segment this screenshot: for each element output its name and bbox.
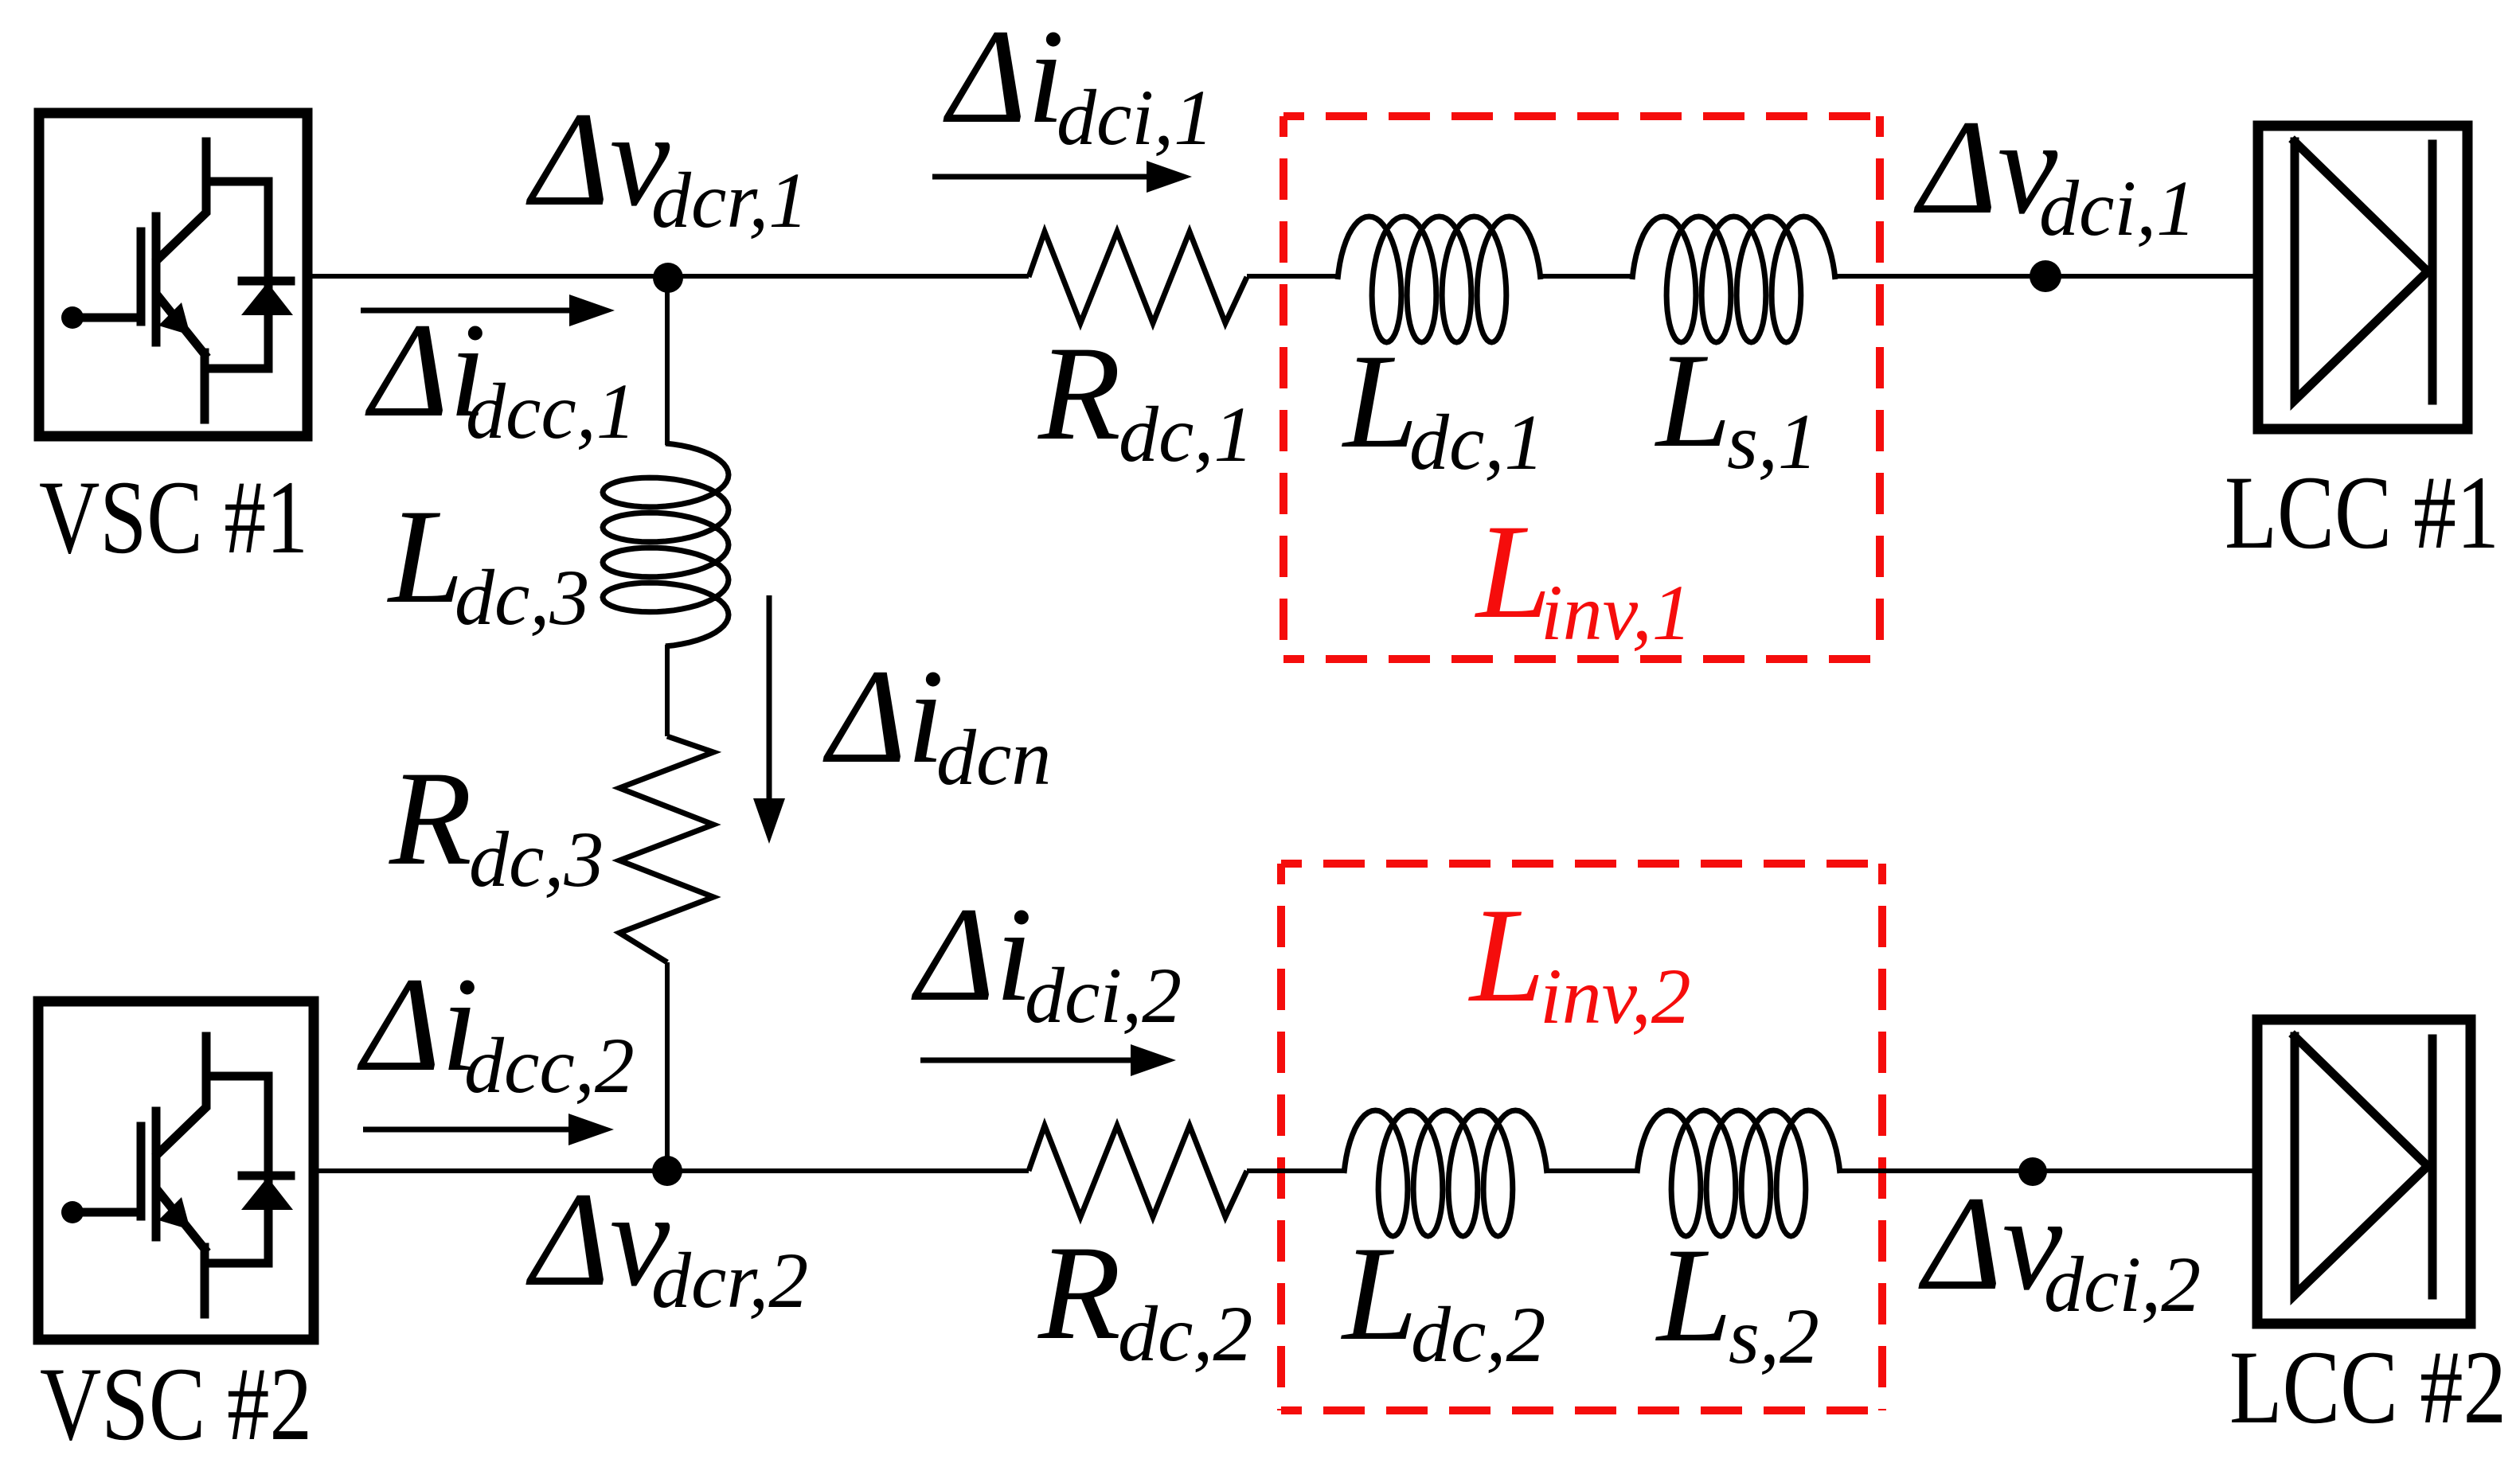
svg-text:dc,2: dc,2 xyxy=(1411,1290,1545,1379)
svg-text:dcc,1: dcc,1 xyxy=(466,367,636,455)
svg-text:dc,1: dc,1 xyxy=(1409,398,1544,486)
svg-text:inv,1: inv,1 xyxy=(1541,568,1692,657)
svg-text:Δv: Δv xyxy=(1918,1168,2063,1318)
svg-text:L: L xyxy=(387,482,464,631)
svg-text:dc,2: dc,2 xyxy=(1118,1289,1252,1378)
svg-text:VSC #1: VSC #1 xyxy=(39,458,308,575)
svg-text:L: L xyxy=(1655,326,1732,475)
svg-text:LCC #2: LCC #2 xyxy=(2229,1328,2506,1445)
svg-text:dcr,2: dcr,2 xyxy=(651,1236,808,1324)
svg-text:inv,2: inv,2 xyxy=(1540,952,1691,1040)
svg-text:L: L xyxy=(1341,1219,1418,1368)
svg-text:dci,1: dci,1 xyxy=(2039,164,2196,252)
svg-text:dc,3: dc,3 xyxy=(455,553,589,642)
svg-text:L: L xyxy=(1342,326,1419,476)
svg-text:VSC #2: VSC #2 xyxy=(40,1345,312,1459)
svg-text:dc,1: dc,1 xyxy=(1119,390,1253,478)
svg-text:Δi: Δi xyxy=(357,950,479,1099)
svg-text:Δv: Δv xyxy=(1913,92,2058,242)
svg-text:R: R xyxy=(389,743,472,893)
svg-text:dci,2: dci,2 xyxy=(1025,951,1182,1040)
svg-text:dci,2: dci,2 xyxy=(2044,1240,2201,1328)
svg-text:dc,3: dc,3 xyxy=(469,815,604,903)
svg-text:R: R xyxy=(1037,318,1121,468)
svg-text:Δv: Δv xyxy=(525,1164,670,1314)
svg-text:dcc,2: dcc,2 xyxy=(464,1021,635,1110)
svg-text:dci,1: dci,1 xyxy=(1057,73,1213,162)
svg-text:Δi: Δi xyxy=(943,2,1065,151)
svg-text:R: R xyxy=(1037,1218,1121,1367)
svg-text:L: L xyxy=(1468,880,1545,1030)
svg-text:dcn: dcn xyxy=(936,713,1051,802)
svg-text:s,2: s,2 xyxy=(1729,1292,1819,1380)
svg-text:LCC #1: LCC #1 xyxy=(2225,454,2499,571)
svg-text:s,1: s,1 xyxy=(1727,397,1818,486)
svg-text:dcr,1: dcr,1 xyxy=(651,156,808,244)
svg-text:L: L xyxy=(1655,1220,1733,1370)
svg-text:Δv: Δv xyxy=(525,84,670,234)
svg-text:Δi: Δi xyxy=(911,880,1033,1029)
svg-text:Δi: Δi xyxy=(822,642,944,791)
